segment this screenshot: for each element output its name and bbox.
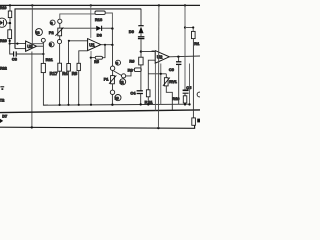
resistor R20 — [8, 30, 12, 39]
wire full vertical x159 — [157, 5, 160, 128]
trimpot P1 — [111, 76, 115, 84]
resistor R5 — [95, 56, 102, 59]
trimpot P2 — [58, 28, 62, 36]
wire U1 inverting input — [69, 40, 88, 42]
wire second bus — [15, 9, 141, 49]
resistor R17 — [58, 63, 62, 71]
ground fragment left edge — [0, 86, 4, 88]
circled pin label near P2 bottom — [49, 42, 54, 47]
wire vertical to U1 output — [111, 29, 113, 45]
terminal near R8 — [122, 74, 126, 78]
wire R20 down — [9, 39, 11, 44]
svg-text:R21: R21 — [46, 57, 54, 62]
svg-text:D7: D7 — [2, 114, 7, 119]
wire R12 long down — [192, 39, 194, 118]
wire top supply bus — [0, 4, 200, 6]
wire bottom rail A — [43, 104, 190, 105]
wire U2 power down — [154, 63, 156, 110]
svg-text:R9: R9 — [129, 58, 135, 63]
svg-text:C4: C4 — [130, 91, 136, 96]
svg-text:U3: U3 — [27, 44, 33, 49]
node C8 output junction — [42, 53, 44, 55]
svg-text:10: 10 — [115, 96, 119, 100]
wire mic node to U3 input — [10, 43, 26, 45]
trimpot RV1 — [164, 78, 168, 86]
terminal pin 13 — [41, 38, 45, 42]
capacitor C8 — [13, 51, 15, 56]
label blob right of R15 — [197, 119, 200, 123]
terminal above P2 — [58, 19, 62, 23]
svg-text:R10: R10 — [172, 96, 179, 101]
svg-text:R1: R1 — [194, 41, 200, 46]
wire terminal down to R17 — [59, 44, 61, 64]
wire vertical x185 from top — [184, 5, 186, 90]
node top bus junctions — [9, 4, 186, 6]
wire RV1 down corner — [166, 86, 172, 110]
svg-text:RV1: RV1 — [169, 79, 177, 84]
svg-text:C9: C9 — [169, 67, 175, 72]
circled pin 10 — [115, 95, 121, 101]
resistor R19 — [9, 5, 11, 11]
wire vertical x112 down — [112, 45, 114, 66]
node bus C junctions — [31, 126, 33, 128]
output terminal right edge — [197, 92, 202, 97]
wire U1 noninverting via corner — [79, 51, 88, 64]
wire terminal to P1 — [112, 70, 114, 75]
node mic junction — [9, 22, 11, 24]
node D8/R18 junction — [111, 27, 113, 29]
wire R11 top link to RV1 column — [148, 73, 166, 75]
wire R9 down to C4 — [140, 65, 142, 91]
wire bottom bus C — [0, 125, 195, 128]
wire C4 to rail A — [140, 94, 142, 105]
microphone M1 — [0, 18, 7, 27]
op-amp U3 — [26, 41, 37, 51]
svg-text:5: 5 — [50, 43, 52, 47]
svg-text:P2: P2 — [49, 30, 55, 35]
wire vertical x91 from top bus — [90, 5, 92, 38]
circled pin label right of terminal — [116, 60, 121, 65]
wire C9 down — [178, 64, 180, 104]
svg-text:R19: R19 — [0, 6, 6, 10]
terminal below P2 — [59, 36, 61, 40]
resistor R8 — [134, 68, 141, 72]
diode D9 — [140, 9, 142, 26]
svg-text:9: 9 — [116, 61, 118, 65]
svg-text:C8: C8 — [12, 57, 18, 62]
wire to rail A — [111, 95, 113, 105]
diode D7 fragment — [0, 119, 3, 123]
node R4 junction — [68, 40, 70, 42]
wire bottom bus B — [0, 110, 200, 113]
wire U3 power down to bottom bus — [31, 52, 33, 128]
diode D8 — [96, 26, 101, 31]
node R9 junction — [140, 50, 142, 52]
svg-text:R4: R4 — [62, 71, 68, 76]
terminal below P1 — [110, 90, 114, 94]
svg-text:D8: D8 — [97, 32, 103, 37]
svg-text:R5: R5 — [94, 60, 99, 64]
svg-text:6: 6 — [51, 21, 53, 25]
wire U3 output — [37, 45, 44, 47]
wire vertical x189 — [189, 64, 191, 105]
svg-text:U2: U2 — [157, 55, 163, 60]
wire R21 down to bottom rail — [43, 73, 48, 106]
op-amp U2 — [155, 51, 169, 64]
svg-text:P1: P1 — [104, 77, 110, 82]
resistor R10 — [183, 96, 187, 103]
wire U1 output — [101, 44, 113, 46]
wire U2 lower input branch — [148, 60, 155, 90]
terminal on x112 — [110, 66, 114, 70]
wire D8 to node — [102, 27, 112, 29]
wire R19 to mic node — [9, 18, 11, 30]
wire R6 to rail A — [78, 71, 80, 105]
svg-text:U1: U1 — [89, 42, 95, 47]
wire U2 output to right edge — [169, 55, 200, 58]
svg-text:12: 12 — [120, 81, 124, 85]
circled pin label near P2 top — [50, 20, 55, 25]
node junction on U3 input wire — [16, 43, 18, 45]
capacitor C9 — [178, 57, 180, 62]
wire mic to node — [7, 22, 10, 24]
svg-text:R20: R20 — [0, 38, 7, 43]
resistor R15 — [192, 118, 196, 125]
wire feedback branch down — [104, 44, 106, 46]
wire R4 to rail A — [68, 71, 70, 105]
wire RV1 top branch — [165, 74, 167, 78]
node feedback junction — [9, 40, 11, 42]
wire D9 chain down — [140, 33, 142, 36]
circled pin 12 — [120, 79, 126, 85]
resistor R21 — [41, 63, 45, 72]
wire branch to second terminal — [114, 71, 122, 76]
wire branch to R12 — [185, 28, 193, 32]
wire terminal to P2 — [59, 23, 61, 28]
svg-text:R8: R8 — [128, 68, 134, 73]
wire R18 to D8 node — [105, 13, 112, 28]
wire P2 wiper to D8 line — [63, 27, 96, 29]
wire pin13 node down — [42, 42, 44, 63]
resistor R11 — [146, 90, 150, 97]
wire terminal up and over to R18 — [60, 14, 95, 19]
wire vertical from top bus x32 — [32, 5, 43, 43]
op-amp U1 — [88, 39, 101, 51]
resistor R6 — [77, 63, 80, 70]
capacitor C6 plates — [138, 36, 145, 38]
svg-text:R18: R18 — [95, 17, 103, 22]
wire C8 to output node — [16, 53, 43, 55]
svg-text:R22: R22 — [0, 65, 8, 70]
wire R4 vertical — [68, 41, 70, 64]
svg-text:R 11: R 11 — [145, 99, 154, 104]
capacitor C5 electrolytic — [183, 89, 189, 91]
wire R11 to rail A — [147, 97, 149, 105]
resistor R12 — [192, 31, 196, 38]
node branch at 27.5 — [184, 26, 186, 28]
wire R8 link — [126, 70, 135, 76]
resistor R9 — [139, 57, 143, 65]
wire U3 lower input — [15, 48, 26, 50]
resistor R4 — [67, 64, 71, 72]
wire R5 to column — [91, 57, 96, 59]
wire P1 down — [112, 84, 114, 90]
U2 input minus tick — [152, 50, 155, 53]
svg-text:R17: R17 — [50, 71, 58, 76]
wire vertical x160.7 — [160, 64, 162, 105]
resistor R18 — [95, 11, 105, 14]
wire R10 to rail A — [184, 103, 186, 104]
capacitor C4 — [137, 90, 143, 92]
wire to U2 input — [141, 51, 155, 53]
svg-text:R6: R6 — [72, 71, 78, 76]
wire C8 branch down — [10, 44, 14, 54]
wire C5 to R10 — [184, 93, 186, 96]
pin 13 circled label — [35, 29, 42, 36]
svg-text:D9: D9 — [129, 29, 135, 34]
svg-text:13: 13 — [36, 31, 40, 35]
wire R17 to rail A — [59, 71, 61, 105]
